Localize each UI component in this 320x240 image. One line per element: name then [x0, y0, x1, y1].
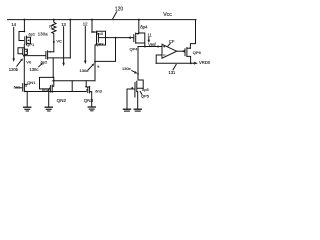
wire QN2 drain bus to QN3: [53, 80, 95, 82]
leader 130b arrow to V0 wire: [17, 58, 23, 66]
svg-text:131: 131: [168, 70, 176, 75]
svg-text:130c: 130c: [29, 67, 38, 72]
wire feedback to inverting input: [156, 55, 162, 63]
node QP3 source tap: [91, 31, 93, 33]
transistor QP6: [182, 48, 191, 64]
label CF: [169, 39, 175, 44]
op-amp CF: [162, 44, 177, 58]
leader 130c arrow: [39, 63, 43, 67]
svg-text:δp3: δp3: [96, 31, 103, 36]
wire VC down to QP2mid source: [53, 42, 55, 52]
wire V0 gate bus to QP2mid: [24, 55, 45, 57]
ground QP5 drain: [123, 109, 130, 111]
node rail junction QP3: [91, 19, 93, 21]
label QN1: [27, 80, 36, 85]
wire QN2 ground drop: [48, 89, 50, 107]
wire output node VRD0: [156, 62, 194, 64]
label QP5: [141, 93, 150, 98]
label VRD0: [199, 60, 211, 65]
transistor QN3: [86, 86, 92, 106]
node Vref junction: [144, 46, 146, 48]
leader 130d arrow: [88, 63, 94, 70]
ground QN2: [45, 107, 52, 111]
wire QP1 drain to QP2: [23, 45, 25, 48]
wire top supply rail: [8, 19, 197, 21]
node bus A tap: [52, 80, 54, 82]
node QN2 gate loop tap: [52, 77, 54, 79]
label QP4 size: [140, 24, 148, 29]
svg-text:QN1: QN1: [27, 80, 36, 85]
arrow on QP4 gate lead: [128, 36, 131, 39]
node rail junction R: [53, 19, 55, 21]
transistor QP5 (loop right, drain left to ground): [127, 80, 143, 109]
ground QN1: [24, 107, 31, 111]
label QP2 size: [41, 59, 48, 64]
leader 130e arrow: [132, 71, 138, 74]
label small mark near bus corner: [97, 64, 100, 68]
svg-text:VC: VC: [56, 39, 62, 44]
current arrow 14: [12, 27, 15, 62]
wire QN1 ground drop: [26, 92, 28, 108]
svg-text:Vcc: Vcc: [163, 12, 172, 18]
wire gate bus drop to lower bus: [95, 38, 116, 62]
node QP5 source tap: [137, 73, 139, 75]
wire QP2mid drain down to QN2: [52, 58, 54, 78]
label 131: [168, 70, 176, 75]
label QN2 size: [42, 87, 49, 92]
leader CF: [168, 44, 170, 47]
label QP3 size: [96, 31, 103, 36]
wire QP1 source from rail: [23, 20, 25, 32]
svg-text:13: 13: [61, 22, 66, 27]
node QP1 gate tap: [24, 31, 26, 33]
svg-text:130e: 130e: [122, 66, 132, 71]
svg-text:V0: V0: [26, 59, 32, 64]
svg-text:12: 12: [83, 22, 88, 27]
label QN2: [57, 98, 67, 103]
leader QP5 labels: [140, 91, 142, 94]
svg-text:120: 120: [115, 7, 124, 13]
arrow output VRD0: [194, 62, 198, 65]
wire QP3 QP4 gate bus: [98, 37, 133, 39]
transistor QN1: [16, 83, 27, 92]
label V0: [26, 59, 32, 64]
leader 131: [173, 64, 176, 69]
node rail junction QP4: [138, 19, 140, 21]
svg-text:δp1: δp1: [28, 32, 35, 37]
label 130b: [9, 67, 19, 72]
wire QN3 drain drop: [85, 81, 87, 87]
svg-text:δn1: δn1: [14, 85, 21, 90]
wire op-amp output to QP6 gate: [177, 50, 185, 52]
label R: [49, 24, 52, 29]
svg-text:VRD0: VRD0: [199, 60, 211, 65]
wire QP3 source from rail: [91, 20, 93, 32]
node QN3 drain: [85, 86, 87, 88]
label 130c: [29, 67, 38, 72]
svg-text:δn3: δn3: [95, 89, 102, 94]
wire source bus bottom: [24, 91, 86, 93]
wire QP4 source from rail: [138, 20, 140, 34]
node VC: [53, 41, 55, 43]
svg-text:δp4: δp4: [140, 24, 148, 29]
svg-text:δp5: δp5: [142, 87, 149, 92]
svg-text:QP1: QP1: [26, 42, 35, 47]
svg-text:QP3: QP3: [96, 41, 105, 46]
label 11: [148, 32, 153, 37]
transistor QP2mid (gate from V0): [46, 51, 70, 60]
wire V0 down to QN1: [23, 56, 25, 83]
current arrow 13: [62, 27, 65, 67]
transistor QN2 (diode-connected, loop left): [40, 77, 54, 92]
svg-text:130a: 130a: [38, 32, 48, 37]
current arrow 12: [84, 27, 87, 65]
svg-text:QN3: QN3: [84, 98, 94, 103]
label QP6: [193, 50, 202, 55]
label 130e: [122, 66, 132, 71]
svg-text:130d: 130d: [80, 68, 89, 73]
label Vref: [148, 42, 156, 47]
svg-text:lk: lk: [97, 64, 100, 68]
resistor R: [52, 20, 56, 42]
label VC: [56, 39, 62, 44]
label 12: [83, 22, 88, 27]
svg-text:QP4: QP4: [130, 46, 139, 51]
wire drop x72 to source bus: [71, 81, 73, 92]
svg-text:QN2: QN2: [57, 98, 67, 103]
node rail junction QP1: [23, 19, 25, 21]
label QP3: [96, 41, 105, 46]
svg-text:130b: 130b: [9, 67, 19, 72]
node gate bus tap: [115, 37, 117, 39]
svg-text:QP5: QP5: [141, 93, 150, 98]
wire Vref node: [138, 46, 162, 48]
label 130a: [38, 32, 48, 37]
svg-text:Vref: Vref: [148, 42, 156, 47]
node lower bus corner: [94, 61, 96, 63]
label QP1: [26, 42, 35, 47]
transistor QP4 (diode-connected, loop right): [134, 33, 145, 47]
node output junction: [190, 62, 192, 64]
current arrow 11: [148, 37, 151, 43]
wire rail drop x70 with bottom jog: [69, 20, 71, 58]
label Vcc: [163, 12, 172, 18]
op-amp input marks: [163, 45, 165, 55]
label 120: [115, 7, 124, 13]
arrow on Vref input: [158, 45, 161, 47]
label QP1 size: [28, 32, 35, 37]
node rail junction wire70: [69, 19, 71, 21]
transistor QP3 (diode-connected, loop right): [92, 31, 106, 45]
transistor QP1 (diode-connected, loop left): [19, 32, 31, 45]
transistor QP2 (diode-connected, loop left): [18, 48, 27, 56]
wire QP3 drain down: [94, 45, 96, 81]
svg-text:14: 14: [11, 22, 16, 27]
leader 120: [113, 12, 117, 19]
label QP5 size: [142, 87, 149, 92]
label 13: [61, 22, 66, 27]
ground QP5 source: [134, 109, 141, 111]
svg-text:11: 11: [148, 32, 153, 37]
label 130d: [80, 68, 89, 73]
ground QN3: [88, 107, 95, 111]
svg-text:R: R: [49, 24, 52, 29]
label 14: [11, 22, 16, 27]
svg-text:QP6: QP6: [193, 50, 202, 55]
label QP4: [130, 46, 139, 51]
wire Vref drop to QP5: [137, 47, 139, 81]
label QN1 size: [14, 85, 21, 90]
label QN3: [84, 98, 94, 103]
label QN3 size: [95, 89, 102, 94]
node V0: [23, 55, 25, 57]
wire rail right drop to QP6: [190, 20, 195, 49]
